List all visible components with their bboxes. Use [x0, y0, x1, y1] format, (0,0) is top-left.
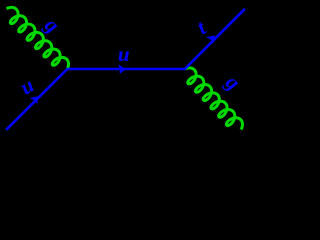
svg-text:u: u — [118, 42, 130, 66]
